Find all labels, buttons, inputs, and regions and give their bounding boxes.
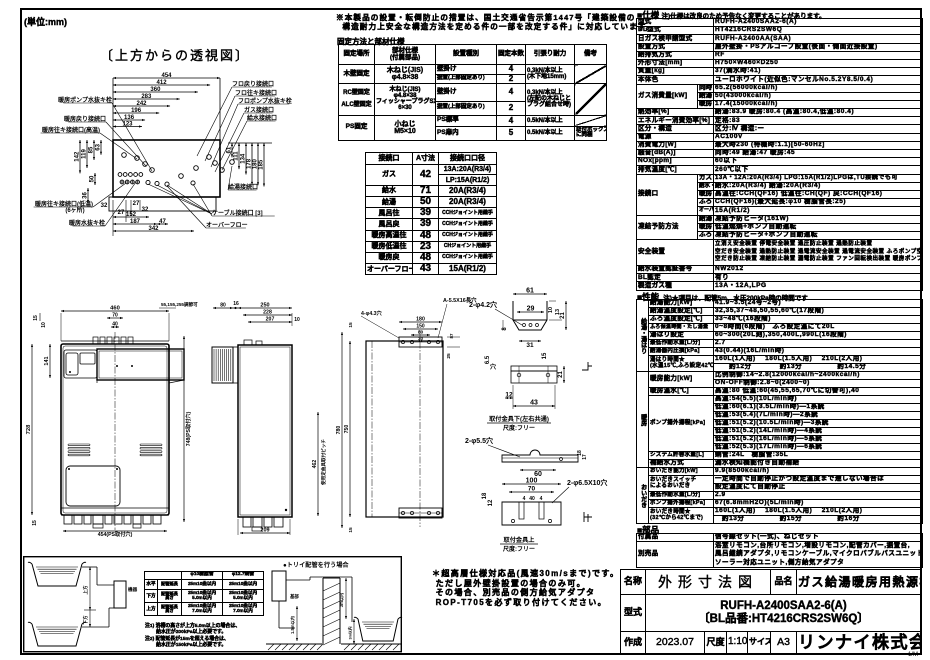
svg-text:15: 15 <box>32 520 38 526</box>
updown dims <box>89 567 91 610</box>
svg-text:136: 136 <box>124 115 135 121</box>
rear dims <box>399 321 442 323</box>
svg-text:15: 15 <box>33 315 39 321</box>
svg-text:119: 119 <box>82 148 88 158</box>
svg-text:80: 80 <box>220 303 226 309</box>
svg-text:4-φ4.3穴: 4-φ4.3穴 <box>361 309 383 317</box>
svg-text:242: 242 <box>137 101 148 107</box>
bracket lower detail <box>513 301 547 330</box>
svg-text:25: 25 <box>446 353 452 359</box>
bracket upper detail <box>502 502 561 525</box>
svg-text:141: 141 <box>44 356 50 365</box>
svg-text:100: 100 <box>526 478 538 485</box>
svg-text:342: 342 <box>148 226 159 232</box>
ground lines <box>266 643 322 645</box>
svg-text:(6ヶ所): (6ヶ所) <box>65 206 84 214</box>
svg-text:取付金具上: 取付金具上 <box>504 536 536 544</box>
svg-text:123: 123 <box>122 121 133 127</box>
drain info box frame <box>24 557 402 652</box>
title block <box>620 569 922 654</box>
svg-text:209: 209 <box>260 528 269 534</box>
svg-text:40: 40 <box>112 322 118 328</box>
svg-text:16: 16 <box>233 301 239 307</box>
svg-text:21: 21 <box>560 312 566 319</box>
front view body <box>61 344 169 515</box>
svg-text:6.5: 6.5 <box>485 355 491 364</box>
torii dims <box>296 606 298 641</box>
svg-text:454: 454 <box>161 73 172 79</box>
svg-text:47: 47 <box>159 219 166 225</box>
torii tub <box>358 619 398 641</box>
svg-text:55,155,255調節可: 55,155,255調節可 <box>161 301 198 308</box>
rear view outline <box>366 341 443 517</box>
unit label <box>24 15 67 28</box>
svg-text:29: 29 <box>527 306 535 313</box>
svg-text:187: 187 <box>130 219 141 225</box>
svg-text:748(PS取付穴): 748(PS取付穴) <box>184 411 192 446</box>
side bottom pipes <box>243 517 251 527</box>
side view body <box>238 345 292 517</box>
svg-text:454(PS取付穴): 454(PS取付穴) <box>98 530 133 538</box>
svg-text:728: 728 <box>26 424 32 434</box>
rear top bracket <box>399 337 442 347</box>
svg-text:尺度:フリー: 尺度:フリー <box>503 545 535 553</box>
svg-text:32: 32 <box>101 203 108 209</box>
svg-text:196: 196 <box>131 108 142 114</box>
svg-text:使用定曲具取付ピッチ: 使用定曲具取付ピッチ <box>320 439 327 486</box>
rear bottom bracket <box>399 508 442 518</box>
high-rise note <box>432 569 619 607</box>
svg-text:●トリイ配管を行う場合: ●トリイ配管を行う場合 <box>283 561 349 569</box>
svg-text:取付金具下(左右共通): 取付金具下(左右共通) <box>489 415 549 423</box>
svg-text:61: 61 <box>526 288 534 295</box>
svg-text:18: 18 <box>482 492 488 499</box>
svg-text:460: 460 <box>110 306 120 312</box>
svg-text:70: 70 <box>112 313 118 319</box>
svg-text:21: 21 <box>558 371 564 378</box>
top view drawing <box>0 0 1 1</box>
access panel <box>66 466 120 506</box>
exhaust duct front <box>97 349 184 380</box>
fixing table caption <box>337 36 405 47</box>
svg-text:27: 27 <box>118 210 125 216</box>
wall hatched <box>322 578 324 644</box>
svg-text:15: 15 <box>542 352 548 359</box>
svg-text:基部: 基部 <box>290 593 299 600</box>
svg-text:50: 50 <box>90 175 96 182</box>
svg-text:2-φ5.5穴: 2-φ5.5穴 <box>465 436 493 445</box>
svg-text:780: 780 <box>336 426 342 435</box>
svg-text:412: 412 <box>157 80 168 86</box>
page number <box>908 652 918 658</box>
heater unit small <box>114 581 126 608</box>
svg-text:228: 228 <box>263 310 272 316</box>
svg-text:下方: 下方 <box>82 615 89 625</box>
svg-text:尺度:フリー: 尺度:フリー <box>503 424 535 432</box>
bracket lower second <box>511 366 557 371</box>
svg-text:穴: 穴 <box>490 363 496 371</box>
svg-text:3m以内: 3m以内 <box>338 593 345 607</box>
svg-text:3m以内: 3m以内 <box>348 626 353 639</box>
svg-text:185: 185 <box>259 159 265 170</box>
front/side/rear views and brackets <box>0 0 1 1</box>
svg-text:462: 462 <box>312 460 318 469</box>
svg-text:150: 150 <box>416 324 425 330</box>
svg-text:上方: 上方 <box>82 585 89 595</box>
svg-text:12: 12 <box>488 499 494 506</box>
svg-text:12: 12 <box>505 392 513 399</box>
svg-text:31: 31 <box>526 342 534 349</box>
svg-text:2-φ4.2穴: 2-φ4.2穴 <box>469 300 497 309</box>
top pipe stubs <box>93 337 98 344</box>
top view body outline <box>113 140 220 197</box>
svg-text:750: 750 <box>344 425 350 434</box>
connection ports <box>135 156 140 161</box>
svg-text:43: 43 <box>530 400 538 407</box>
svg-text:142: 142 <box>75 151 81 162</box>
svg-text:27: 27 <box>133 201 140 207</box>
note text top middle <box>336 14 654 32</box>
svg-text:30: 30 <box>418 336 424 341</box>
fixing methods table <box>338 44 607 141</box>
svg-text:207: 207 <box>266 317 275 323</box>
top view title <box>100 45 250 64</box>
svg-text:15: 15 <box>348 527 354 533</box>
connection table <box>365 152 497 275</box>
svg-text:10: 10 <box>548 307 554 313</box>
svg-text:152: 152 <box>126 212 137 218</box>
section marks <box>582 362 592 370</box>
svg-text:2-φ6.5X10穴: 2-φ6.5X10穴 <box>567 478 607 487</box>
drain piping info box <box>0 0 1 1</box>
svg-text:10: 10 <box>41 322 47 328</box>
spec section (right column) <box>637 9 826 21</box>
svg-text:36: 36 <box>83 192 89 199</box>
svg-text:111: 111 <box>234 151 240 161</box>
lower bathtub <box>32 624 82 646</box>
svg-text:10: 10 <box>294 317 300 323</box>
louver vents <box>68 444 90 446</box>
svg-text:機器: 機器 <box>127 586 138 593</box>
svg-text:180: 180 <box>416 317 425 323</box>
piping to tubs <box>82 566 97 568</box>
svg-text:15: 15 <box>348 322 354 328</box>
side dims <box>213 307 233 309</box>
svg-text:85: 85 <box>89 146 95 153</box>
svg-text:70: 70 <box>528 486 536 493</box>
front dims <box>61 310 169 312</box>
svg-text:32: 32 <box>142 207 149 213</box>
torii heater <box>272 571 286 601</box>
svg-text:283: 283 <box>141 94 152 100</box>
svg-text:4: 4 <box>540 496 543 502</box>
svg-text:1.5m以内: 1.5m以内 <box>289 616 296 634</box>
svg-text:80: 80 <box>418 330 424 336</box>
control section <box>64 350 97 378</box>
bracket upper mount bar <box>502 450 578 462</box>
bottom pipe stubs front <box>61 507 169 509</box>
svg-text:87: 87 <box>449 333 454 339</box>
svg-text:40: 40 <box>529 496 535 502</box>
upper bathtub <box>32 564 82 586</box>
svg-text:360: 360 <box>150 87 161 93</box>
svg-text:63: 63 <box>96 143 102 150</box>
torii piping <box>286 579 310 581</box>
svg-text:17: 17 <box>582 454 588 460</box>
svg-text:250: 250 <box>260 303 269 309</box>
exhaust duct side <box>212 347 233 383</box>
svg-text:4: 4 <box>523 496 526 502</box>
